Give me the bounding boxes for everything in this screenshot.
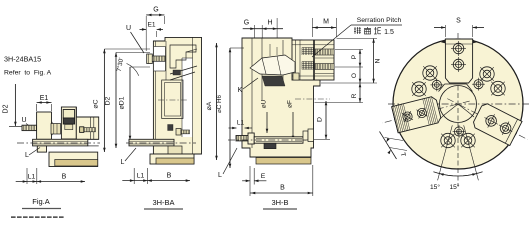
- svg-text:M: M: [323, 19, 329, 26]
- ext lines right: [337, 38, 377, 40]
- jaw block top lines: [292, 44, 334, 46]
- jaw step profile: [170, 45, 196, 68]
- bolt shank v2 hatched: [152, 56, 165, 61]
- bolt head right: [80, 127, 84, 133]
- internal step lines: [269, 44, 271, 56]
- svg-text:S: S: [456, 18, 461, 25]
- wedge dark parts: [262, 76, 285, 86]
- right jaw inner line: [505, 119, 517, 143]
- dimension D2 line: [14, 84, 16, 126]
- slot flare chord: [445, 83, 467, 85]
- note underline leader: [351, 24, 402, 26]
- svg-text:O: O: [351, 73, 358, 78]
- bottom bar v2: [129, 139, 174, 146]
- bolt shank right hatched: [84, 128, 96, 132]
- lower step block: [37, 146, 46, 152]
- svg-text:D: D: [317, 117, 324, 122]
- serration grid 2: [301, 62, 303, 70]
- dimension C H6 line: [229, 48, 231, 168]
- svg-text:1.5: 1.5: [384, 29, 394, 36]
- svg-text:L: L: [121, 159, 125, 166]
- adapter bar: [33, 139, 88, 146]
- dark nut detail v2: [168, 125, 173, 131]
- block under bar: [264, 143, 276, 149]
- svg-text:3H-BA: 3H-BA: [152, 198, 174, 207]
- bar inner lines: [33, 140, 88, 142]
- dimension line L1 B: [16, 181, 85, 183]
- left jaw serrations outer: [403, 104, 410, 130]
- bottom block v2: [150, 154, 194, 164]
- dark tan strip v3: [256, 158, 311, 165]
- svg-text:D2: D2: [3, 104, 10, 113]
- dimension U line v3: [266, 112, 268, 133]
- scroll radial line down-right: [458, 104, 470, 114]
- svg-text:L: L: [218, 172, 222, 179]
- mounting hole 4: [491, 81, 505, 95]
- nut detail: [51, 124, 61, 135]
- centerline of Fig.A: [17, 142, 100, 144]
- svg-text:⌀A: ⌀A: [206, 101, 213, 110]
- lower small block v2: [168, 146, 182, 154]
- svg-text:U: U: [21, 117, 26, 124]
- svg-text:15°: 15°: [450, 183, 460, 191]
- dimension A line: [216, 43, 218, 160]
- serration grid 1: [301, 48, 303, 56]
- cropped chinese caption: [11, 216, 64, 218]
- lower dark tan strip: [55, 160, 98, 167]
- clamp nut dark detail: [63, 118, 74, 124]
- dimension S: [444, 25, 446, 37]
- mounting hole 1: [423, 66, 437, 80]
- mounting hole 5: [441, 133, 455, 147]
- bar lines v3: [256, 138, 302, 140]
- svg-text:B: B: [280, 185, 285, 192]
- rim wedge top-right: [473, 39, 477, 43]
- dimension C line: [103, 49, 105, 152]
- actuator outer: [162, 80, 183, 119]
- body outline v3: [242, 38, 320, 157]
- pilot boss: [303, 131, 308, 140]
- draw bar v3: [254, 137, 303, 143]
- dimension P: [359, 50, 361, 68]
- svg-text:⌀D1: ⌀D1: [119, 96, 126, 109]
- svg-text:D2: D2: [105, 96, 112, 105]
- vertical centerline: [457, 33, 459, 186]
- dimension D line: [325, 101, 327, 139]
- svg-text:3H-B: 3H-B: [271, 198, 288, 207]
- top jaw bolt 1: [453, 43, 464, 54]
- small dark wedge bit: [173, 70, 181, 75]
- horizontal centerline: [388, 103, 529, 105]
- body outline: [153, 37, 201, 154]
- small bolt upper-right: [474, 80, 483, 89]
- left jaw outline: [392, 96, 442, 133]
- svg-text:G: G: [153, 7, 158, 14]
- svg-text:N: N: [375, 58, 382, 63]
- angle leader curve: [127, 64, 139, 76]
- angle arc 15-15: [433, 172, 482, 176]
- dimension N: [373, 39, 375, 84]
- svg-text:Fig.A: Fig.A: [32, 197, 50, 206]
- dimension G: [146, 14, 164, 16]
- body inner verticals: [251, 38, 253, 148]
- actuator centerline: [158, 99, 188, 101]
- master jaw block: [292, 40, 334, 80]
- svg-text:⌀F: ⌀F: [287, 100, 294, 108]
- extension lines E B: [249, 166, 251, 196]
- dimension B v3: [250, 192, 313, 194]
- dimension line L1 B v2: [122, 180, 190, 182]
- dimension M v3: [312, 27, 336, 29]
- svg-text:U: U: [126, 25, 131, 32]
- small bolt down: [454, 127, 463, 136]
- svg-text:Refer to Fig. A: Refer to Fig. A: [4, 70, 52, 77]
- mounting hole 2: [412, 82, 426, 96]
- dimension D2 line: [115, 53, 117, 149]
- svg-text:E1: E1: [147, 22, 155, 29]
- svg-text:Serration Pitch: Serration Pitch: [357, 17, 402, 24]
- center bore circle: [440, 86, 477, 123]
- svg-text:P: P: [351, 54, 358, 59]
- dimension T line: [380, 132, 397, 160]
- note cjk char ju: [374, 27, 376, 34]
- top jaw inner line: [445, 43, 472, 45]
- note cjk char chi: [364, 28, 371, 30]
- bolt recess white: [154, 47, 166, 72]
- svg-text:E1: E1: [40, 95, 49, 102]
- centerline v3: [228, 139, 314, 141]
- right jaw outline: [471, 102, 522, 146]
- extension lines bottom v2: [133, 168, 135, 184]
- jaw block verticals: [295, 40, 297, 80]
- serration interface heavy line: [313, 40, 315, 80]
- svg-text:K: K: [238, 87, 243, 94]
- body center block: [61, 107, 76, 139]
- dimension T ext lines: [385, 138, 404, 141]
- svg-text:L1: L1: [28, 174, 36, 181]
- bolt head v2: [147, 54, 153, 64]
- jaw axis left: [382, 101, 469, 123]
- svg-text:⌀C: ⌀C: [93, 99, 100, 108]
- svg-text:R: R: [351, 93, 358, 98]
- dimension E: [242, 180, 250, 182]
- bar right extension lines: [88, 138, 99, 140]
- svg-text:15°: 15°: [430, 183, 440, 191]
- dimension G v3: [243, 28, 255, 30]
- stud collar v3: [248, 133, 254, 144]
- top jaw bolt 2: [453, 59, 464, 70]
- svg-text:L1: L1: [237, 120, 245, 127]
- dimension O: [359, 67, 361, 83]
- angle line right 15: [464, 125, 479, 180]
- svg-text:3H-24BA15: 3H-24BA15: [4, 55, 41, 64]
- dimension F line v3: [292, 112, 294, 140]
- jaw bolt shank 2: [315, 64, 334, 70]
- svg-text:B: B: [167, 173, 172, 180]
- bar lines v2: [129, 140, 174, 142]
- angle line left 15: [438, 125, 453, 180]
- dimension R: [359, 83, 361, 103]
- actuator inner: [165, 83, 181, 117]
- small detail rects: [65, 124, 73, 129]
- mounting hole 3: [480, 67, 494, 81]
- note cjk char pai: [354, 27, 356, 34]
- right jaw bolt 2: [498, 121, 512, 135]
- stud U shank: [22, 125, 45, 130]
- svg-text:L: L: [25, 152, 29, 159]
- left jaw bolt 1: [416, 107, 427, 118]
- rim wedge top-left: [441, 39, 445, 43]
- stud U collar: [45, 122, 52, 134]
- jaw channel white: [182, 58, 193, 137]
- dimension L1 v3: [229, 127, 237, 129]
- dimension D1 line: [129, 67, 131, 140]
- wedge slant lines: [170, 66, 197, 74]
- jaw axis right: [447, 99, 527, 140]
- jaw block right lines: [315, 57, 334, 59]
- dimension E1 line: [37, 102, 52, 104]
- top jaw outline: [445, 39, 472, 83]
- face ring lines: [90, 117, 92, 139]
- inner sleeve detail: [63, 110, 74, 119]
- wedge internals v3: [250, 55, 295, 75]
- svg-text:B: B: [62, 174, 67, 181]
- lower main block: [49, 152, 98, 166]
- dark tan strip v2: [156, 158, 194, 164]
- small bolt upper-left: [432, 80, 441, 89]
- dimension extension lines bottom: [26, 168, 28, 184]
- stud shank v3: [236, 136, 249, 141]
- body block under E1: [37, 112, 52, 139]
- dimension H v3: [255, 28, 283, 30]
- centerline v2: [126, 142, 196, 144]
- left jaw bolt 2: [402, 111, 413, 122]
- chuck body circle: [393, 39, 523, 169]
- dimension E1 v2: [140, 28, 147, 30]
- svg-text:E: E: [261, 173, 266, 180]
- svg-text:H: H: [267, 20, 272, 27]
- svg-text:⌀C H6: ⌀C H6: [216, 95, 223, 113]
- left jaw serrations inner: [431, 97, 438, 123]
- wedge inner lines: [262, 58, 266, 74]
- scroll radial line down-left: [444, 104, 459, 116]
- body right portion: [76, 107, 98, 139]
- tiny bolt right v2: [176, 129, 181, 136]
- svg-text:⌀U: ⌀U: [261, 99, 268, 108]
- right jaw bolt 1: [484, 114, 498, 128]
- jaw bolt shank 1: [315, 49, 334, 55]
- svg-text:G: G: [244, 20, 249, 27]
- svg-text:L1: L1: [137, 173, 145, 180]
- mounting hole 6: [461, 133, 475, 147]
- left column inner line: [155, 41, 157, 139]
